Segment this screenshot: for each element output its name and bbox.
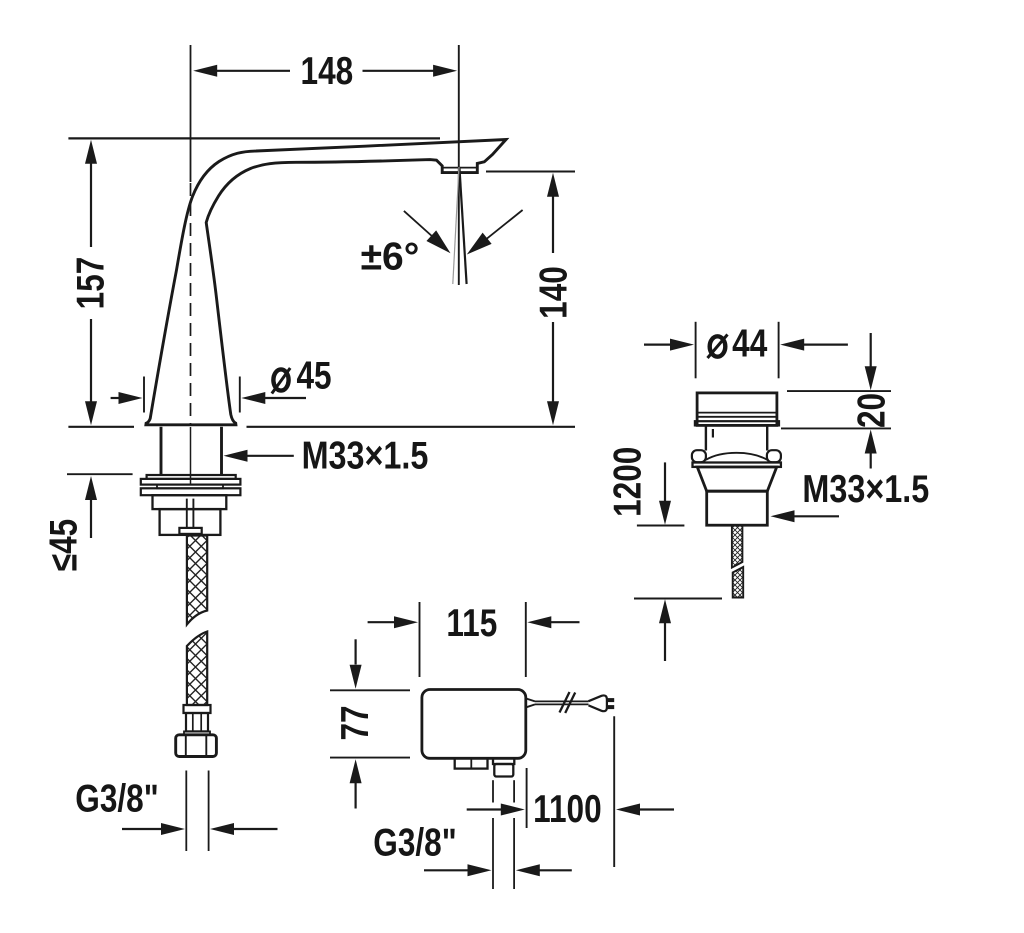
dimension o45 tick left: [143, 377, 145, 413]
dimension 20 arrow down: [870, 333, 872, 367]
escutcheon plate 2: [141, 479, 241, 485]
dimension 157 arrowhead top: [85, 140, 97, 164]
shank centerline: [190, 427, 192, 484]
aerator inner line: [442, 167, 477, 169]
valve cap base: [695, 421, 779, 425]
dimension 115 arrow left: [368, 621, 395, 623]
svg-text:G3/8": G3/8": [373, 821, 456, 865]
dimension 1100 tick left: [526, 768, 528, 828]
valve neck hook: [712, 429, 714, 438]
svg-text:45: 45: [296, 354, 331, 398]
dimension 77 arrow up: [355, 783, 357, 809]
angle indicator arrow left: [404, 211, 434, 238]
diameter symbol of o44: [708, 335, 728, 359]
water stream tilted line gray: [453, 167, 459, 284]
escutcheon plate 1: [147, 475, 236, 479]
hose end projection lines: [185, 771, 187, 852]
dimension 148 line: [217, 70, 290, 72]
valve flange: [693, 463, 781, 467]
dimension 140 top tick: [486, 171, 575, 173]
dimension 148 arrowhead right: [433, 65, 457, 77]
dimension 1200 tick top: [637, 525, 685, 527]
dimension 140 arrowhead top: [547, 173, 559, 197]
extension line right (148 dim / stream centerline): [458, 45, 460, 285]
svg-text:77: 77: [333, 705, 377, 740]
dimension G3/8 left arrows: [122, 828, 162, 830]
diameter symbol of o45: [272, 368, 290, 394]
dimension 115 arrow right: [551, 621, 580, 623]
dimension 148 arrowhead left: [193, 65, 217, 77]
M33x1.5 right leader arrow: [794, 515, 839, 517]
svg-text:20: 20: [849, 393, 893, 428]
dimension 1200 arrow up: [664, 623, 666, 662]
control box: [422, 690, 526, 759]
dimension 20 tick bottom: [781, 427, 891, 429]
cord break slashes: [560, 692, 570, 713]
dimension 20 arrow up: [870, 453, 872, 469]
dimension 1100 tick right: [613, 716, 615, 867]
rod collar: [179, 528, 201, 534]
spring clip right ear: [767, 450, 781, 462]
power plug: [589, 695, 607, 711]
hose hex nut: [176, 735, 217, 757]
power cord strain relief: [527, 699, 536, 702]
dimension 140 arrowhead bottom: [547, 401, 559, 425]
box foot: [455, 758, 488, 768]
hose ferrule: [186, 713, 208, 731]
faucet shank right line: [220, 427, 223, 475]
top reference line: [68, 137, 440, 139]
valve cap: [697, 393, 777, 426]
svg-text:M33×1.5: M33×1.5: [802, 467, 929, 511]
dimension 77 tick top: [330, 689, 410, 691]
water stream tilted line: [459, 167, 466, 284]
dimension 1200 arrow down: [664, 462, 666, 501]
dimension 20 tick top: [787, 390, 891, 392]
dimension 140 line: [552, 196, 554, 253]
escutcheon band: [157, 485, 223, 489]
braided hose upper section: [187, 536, 207, 625]
angle indicator arrow right: [486, 210, 523, 239]
cone dashed centerline: [190, 183, 192, 424]
dimension 115 tick left: [419, 602, 421, 677]
dimension o44 arrow right: [803, 344, 848, 346]
svg-text:44: 44: [732, 322, 767, 366]
svg-text:1100: 1100: [533, 787, 601, 831]
faucet spout and cone outline: [146, 140, 506, 425]
spring clip left ear: [692, 450, 706, 462]
dimension le45 arrow up: [90, 499, 92, 538]
dimension 115 tick right: [525, 602, 527, 677]
valve neck: [705, 425, 707, 450]
locknut step 2: [160, 509, 221, 535]
svg-text:115: 115: [446, 601, 497, 645]
dimension 157 arrowhead bottom: [85, 401, 97, 425]
countertop line left: [68, 426, 134, 428]
svg-text:±6°: ±6°: [361, 236, 420, 279]
dimension o44 tick left: [695, 322, 697, 379]
hose fitting collar: [184, 705, 211, 713]
box outlet block: [494, 764, 513, 777]
dimension o44 arrow left: [644, 344, 671, 346]
dimension G3/8 bottom arrows: [424, 869, 468, 871]
hose ferrule band: [184, 731, 210, 734]
svg-text:157: 157: [69, 257, 113, 310]
svg-text:140: 140: [531, 266, 575, 319]
faucet shank left line: [160, 427, 163, 475]
locknut step 1: [153, 495, 227, 509]
svg-text:1200: 1200: [605, 447, 649, 517]
valve cable lower segment: [733, 567, 744, 598]
dimension o45 arrow left: [111, 397, 120, 399]
spring clip arc: [706, 453, 767, 460]
dimension o44 tick right: [778, 322, 780, 379]
dimension 77 tick bottom: [330, 757, 410, 759]
dimension 1200 tick bottom: [634, 598, 722, 600]
box outlet band: [493, 758, 514, 764]
dimension 1100 arrow left: [467, 808, 502, 810]
countertop line right: [247, 426, 576, 428]
power cord: [535, 700, 589, 702]
svg-text:≤45: ≤45: [42, 519, 86, 571]
threaded rod: [186, 499, 188, 528]
M33x1.5 leader arrow: [247, 455, 294, 457]
valve body upper: [697, 467, 776, 491]
dimension o45 arrow right: [264, 397, 306, 399]
valve cable upper segment: [732, 526, 743, 568]
valve body lower: [707, 491, 768, 525]
plug prongs: [607, 698, 614, 702]
outlet pipe projection lines: [492, 780, 494, 802]
svg-text:M33×1.5: M33×1.5: [302, 434, 429, 478]
dimension 157 line: [90, 162, 92, 247]
dimension 1100 arrow right: [639, 808, 674, 810]
escutcheon plate 3: [141, 488, 241, 495]
extension line left (148 dim / spout centerline upper): [190, 45, 192, 182]
svg-text:G3/8": G3/8": [75, 777, 158, 821]
dimension le45 tick: [67, 473, 133, 475]
dimension 77 arrow down: [355, 639, 357, 664]
braided hose lower section: [187, 632, 207, 706]
dimension o45 tick right: [239, 377, 241, 413]
svg-text:148: 148: [301, 49, 354, 93]
